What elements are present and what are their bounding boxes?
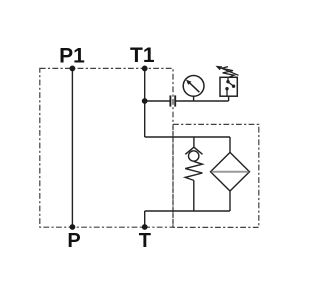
- node T1: [142, 66, 148, 72]
- svg-text:P: P: [67, 230, 80, 252]
- wire P1 to P: [71, 68, 73, 227]
- pressure switch: [220, 77, 237, 101]
- adjustable spring with arrow (pressure switch setting): [216, 66, 239, 78]
- node P: [70, 224, 76, 230]
- wire T riser: [144, 211, 146, 227]
- wire T1 branch to filter inlet: [145, 136, 230, 138]
- svg-text:T1: T1: [130, 44, 155, 67]
- manifold enclosure (dash-dot boundary): [40, 68, 173, 227]
- test coupling (measuring connection): [170, 95, 175, 106]
- filter: [211, 137, 250, 211]
- check valve (bypass): [185, 147, 202, 211]
- wire junction to test coupling: [145, 100, 170, 102]
- node P1: [70, 66, 76, 72]
- node T: [142, 224, 148, 230]
- wire test coupling to pressure switch: [176, 100, 229, 102]
- pressure gauge: [183, 76, 204, 102]
- svg-text:T: T: [139, 230, 151, 252]
- wire check valve stem top: [193, 137, 195, 147]
- wire T1 down to filter branch: [144, 68, 146, 137]
- wire bottom return line: [145, 210, 230, 212]
- svg-text:P1: P1: [59, 44, 85, 67]
- filter unit enclosure (dash-dot boundary): [173, 124, 259, 227]
- node gauge branch junction: [142, 98, 148, 104]
